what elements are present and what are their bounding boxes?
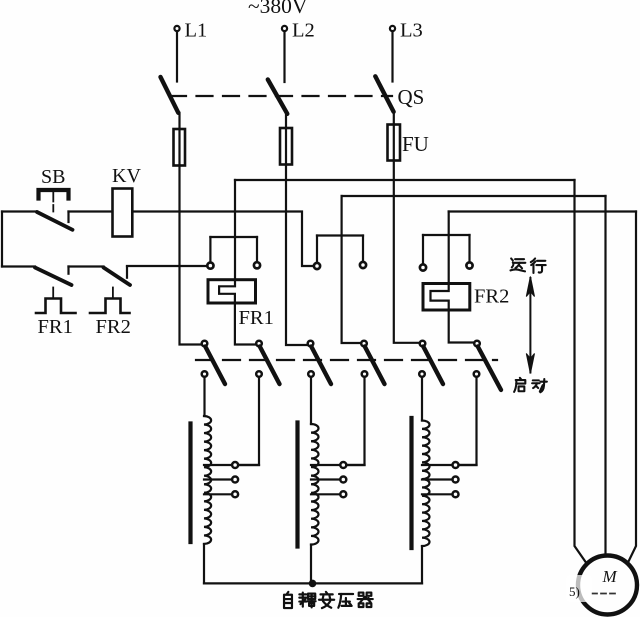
transformer T3 tap 1 terminal <box>453 462 459 468</box>
transformer T3 tap 3 terminal <box>453 491 459 497</box>
svg-text:5): 5) <box>569 584 580 599</box>
heater element FR2 body <box>423 284 470 311</box>
label yunxing (run) <box>510 258 525 271</box>
wire L3 drop to QS <box>391 32 393 82</box>
wire switch5 to transformer T3 winding top <box>421 377 423 420</box>
start switch 6 lower terminal <box>474 371 480 377</box>
wire switch6 to T3 tap <box>460 377 477 465</box>
fuse FU pole2 wire through <box>285 128 287 165</box>
transformer T2 winding <box>311 424 319 545</box>
wire T3 tap1 to switch6 drop <box>460 464 477 466</box>
start switch 4 lower terminal <box>362 371 368 377</box>
fuse FU pole3 wire through <box>393 125 395 161</box>
QS gang dashed linkage <box>170 95 392 97</box>
wire SB to KV coil <box>69 210 113 212</box>
start switch 6 blade <box>478 347 501 390</box>
transformer T1 tap 1 wire <box>204 464 232 466</box>
svg-text:QS: QS <box>398 85 425 109</box>
svg-text:~380V: ~380V <box>248 0 308 18</box>
svg-text:FR1: FR1 <box>239 307 274 329</box>
svg-text:L1: L1 <box>185 20 208 42</box>
transformer T3 tap 1 wire <box>422 464 452 466</box>
switch QS pole 1 blade <box>161 77 179 113</box>
transformer T2 core <box>295 423 299 547</box>
wire T3 bottom lead <box>421 546 423 583</box>
switch QS pole 3 blade <box>375 76 393 112</box>
arrow head up <box>526 277 534 297</box>
run contact 1 left riser <box>209 237 211 262</box>
wire motor phase B down to start switch 4 <box>342 196 362 343</box>
transformer T3 winding <box>422 421 430 547</box>
svg-text:L2: L2 <box>292 20 315 42</box>
wire switch3 to transformer T2 winding top <box>310 377 312 424</box>
svg-text:M: M <box>602 567 618 586</box>
wire control top left segment <box>2 210 37 212</box>
wire phase L1 from fuse down to start switch 1 <box>180 166 202 345</box>
run contact 3 left terminal <box>420 264 426 270</box>
wire motor phase C vertical down right side <box>628 212 636 563</box>
transformer T1 winding <box>204 416 211 544</box>
fuse FU pole1 body <box>174 129 186 166</box>
terminal L3 <box>390 26 395 31</box>
transformer T1 tap 1 terminal <box>232 462 238 468</box>
svg-text:FR2: FR2 <box>474 286 509 308</box>
svg-text:SB: SB <box>41 166 65 188</box>
run contact 3 right terminal <box>466 262 472 268</box>
start switch 5 lower terminal <box>419 371 425 377</box>
start switch 4 blade <box>365 347 385 385</box>
run contact 1 right riser <box>256 237 258 262</box>
start switch 2 lower terminal <box>256 371 262 377</box>
run contact 2 bridge bar <box>317 234 363 236</box>
fuse FU pole2 body <box>280 128 292 165</box>
wire FR1 to FR2 contact <box>69 265 104 267</box>
wire T2 bottom lead <box>310 545 312 584</box>
start switch 3 lower terminal <box>308 371 314 377</box>
start switch 1 lower terminal <box>202 371 208 377</box>
transformer T1 tap 3 terminal <box>232 491 238 497</box>
svg-text:FU: FU <box>402 132 429 156</box>
run contact 2 right terminal <box>360 262 366 268</box>
transformer T2 tap 3 wire <box>311 493 340 495</box>
wire KV coil to run-contact 2 (crosses L1, L2) <box>132 212 313 267</box>
wire motor phase A vertical down right side <box>575 180 588 564</box>
wire motor phase A through heater FR1 down to start switch 2 <box>219 180 256 345</box>
run contact 3 left riser <box>422 235 424 264</box>
wire T2 tap1 to switch4 drop <box>348 464 365 466</box>
transformer T3 tap 2 wire <box>422 478 452 480</box>
wire T1 tap1 to switch2 drop <box>239 464 259 466</box>
transformer T2 tap 1 wire <box>311 464 340 466</box>
start switch 2 blade <box>260 347 280 385</box>
wire control loop left edge <box>1 212 3 267</box>
wire motor phase C through heater FR2 down to start switch 6 <box>431 212 475 343</box>
wire L3 blade to fuse <box>393 112 395 125</box>
contact FR2 fixed stub <box>126 267 128 278</box>
pushbutton SB fixed contact stub <box>67 212 69 223</box>
transformer T2 tap 2 wire <box>311 478 340 480</box>
transformer T2 tap 1 terminal <box>340 462 346 468</box>
wire motor phase C top run <box>449 210 636 212</box>
transformer T1 tap 3 wire <box>204 493 232 495</box>
label qidong (start) <box>514 378 525 392</box>
switch QS pole 2 blade <box>268 80 288 114</box>
wire control bottom left segment <box>2 265 35 267</box>
changeover arrow shaft <box>529 278 531 373</box>
fuse FU pole1 wire through <box>178 129 180 166</box>
wire L1 drop to QS <box>176 32 178 82</box>
run contact 2 right riser <box>362 236 364 262</box>
fuse FU pole3 body <box>388 125 401 161</box>
wire switch2 to T1 tap <box>239 377 259 465</box>
thermal release FR1 button symbol <box>36 299 76 314</box>
terminal L2 <box>282 26 287 31</box>
start gang dashed linkage <box>196 359 497 361</box>
transformer T1 core <box>188 424 192 543</box>
start switch 5 blade <box>423 347 443 385</box>
pushbutton SB NC blade <box>37 212 73 230</box>
heater element FR1 body <box>208 280 256 303</box>
svg-text:FR2: FR2 <box>96 316 131 338</box>
run contact 2 left riser <box>316 236 318 263</box>
wire FR2 contact to run-contact 1 (crosses L1) <box>127 265 207 267</box>
start switch 3 blade <box>311 347 331 385</box>
pushbutton SB actuator bracket <box>39 190 69 199</box>
contact FR2 NC blade <box>104 268 131 286</box>
transformer T2 tap 2 terminal <box>340 477 346 483</box>
transformer T3 tap 2 terminal <box>453 477 459 483</box>
wire L1 blade to fuse <box>178 113 180 129</box>
svg-text:L3: L3 <box>400 20 423 42</box>
transformer T2 tap 3 terminal <box>340 491 346 497</box>
svg-text:FR1: FR1 <box>38 316 73 338</box>
contact FR1 fixed stub <box>67 267 69 274</box>
wire phase L3 from fuse down to start switch 5 <box>394 161 420 343</box>
label 3~ dashes (watermarked) <box>592 593 619 595</box>
watermark blob <box>566 575 592 602</box>
run contact 1 bridge bar <box>210 236 257 238</box>
svg-text:KV: KV <box>112 165 141 187</box>
relay coil KV <box>113 189 133 237</box>
start switch 6 pivot terminal <box>474 341 480 347</box>
pushbutton SB linkage dashes <box>52 193 54 212</box>
thermal release FR1 linkage <box>52 288 54 299</box>
start switch 4 pivot terminal <box>361 341 367 347</box>
thermal release FR2 button symbol <box>90 299 130 314</box>
motor M circle <box>578 556 637 615</box>
start switch 1 blade <box>205 347 225 385</box>
transformer T3 tap 3 wire <box>422 493 452 495</box>
terminal L1 <box>174 26 179 31</box>
run contact 1 left terminal <box>207 263 213 269</box>
thermal release FR2 linkage <box>112 288 114 299</box>
wire L2 drop to QS <box>283 32 285 82</box>
transformer T3 core <box>409 418 413 548</box>
transformer T1 tap 2 wire <box>204 478 232 480</box>
start switch 2 pivot terminal <box>256 341 262 347</box>
wire motor phase A top run (to right) <box>235 179 575 181</box>
junction star point <box>309 580 317 588</box>
start switch 3 pivot terminal <box>308 341 314 347</box>
run contact 2 left terminal <box>314 263 320 269</box>
wire T1 bottom lead <box>203 544 205 583</box>
run contact 3 right riser <box>468 235 470 262</box>
wire motor phase B vertical down right side <box>604 196 606 555</box>
run contact 3 bridge bar <box>423 234 470 236</box>
wire motor phase B top run <box>342 195 606 197</box>
run contact 1 right terminal <box>254 262 260 268</box>
transformer T1 tap 2 terminal <box>232 477 238 483</box>
label autotransformer (zi ou bian ya qi) <box>284 592 292 608</box>
wire L2 blade to fuse <box>285 114 287 128</box>
start switch 1 pivot terminal <box>202 341 208 347</box>
start switch 5 pivot terminal <box>420 341 426 347</box>
wire switch4 to T2 tap <box>348 377 365 465</box>
contact FR1 NC blade <box>35 268 72 286</box>
arrow head down <box>526 354 534 374</box>
wire phase L2 from fuse down to start switch 3 <box>286 165 308 346</box>
wire star point bus <box>204 582 422 584</box>
wire switch1 to transformer T1 winding top <box>203 377 205 416</box>
